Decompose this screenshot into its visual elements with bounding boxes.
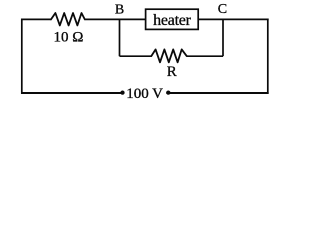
svg-text:100 V: 100 V (126, 86, 163, 102)
wire right side (267, 19, 269, 94)
wire lower branch right (187, 55, 223, 57)
resistor R zigzag (151, 49, 186, 62)
svg-text:C: C (218, 2, 227, 17)
svg-text:B: B (115, 2, 124, 17)
wire resistor to heater box (85, 18, 145, 20)
svg-text:R: R (167, 64, 177, 80)
resistor 10 ohm zigzag (51, 13, 85, 25)
wire left side (21, 19, 23, 94)
wire node B vertical drop (119, 19, 121, 56)
battery terminal dot left (120, 91, 124, 95)
svg-text:10 Ω: 10 Ω (54, 29, 84, 45)
wire node C vertical drop (222, 19, 224, 56)
svg-text:heater: heater (153, 12, 192, 29)
heater box (146, 9, 199, 29)
wire bottom-right segment (166, 92, 268, 94)
wire top-left segment (21, 18, 51, 20)
wire bottom-left segment (21, 92, 124, 94)
wire heater box to top-right corner (198, 18, 268, 20)
wire lower branch left (120, 55, 152, 57)
battery terminal dot right (166, 91, 170, 95)
